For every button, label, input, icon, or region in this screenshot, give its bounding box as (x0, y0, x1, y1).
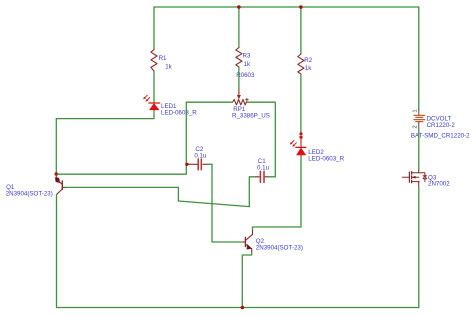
svg-text:1: 1 (413, 109, 419, 112)
svg-text:R3: R3 (243, 53, 251, 60)
wire Q3 source down (418, 187, 420, 307)
capacitor C1 (256, 171, 269, 182)
svg-text:R1: R1 (159, 55, 167, 62)
wire bottom rail (57, 307, 419, 309)
wire right vertical battery top (418, 7, 420, 110)
wire C1 right riser to RP1 (246, 102, 275, 177)
wire Q2 emitter down (242, 253, 251, 308)
svg-text:1k: 1k (165, 64, 172, 71)
wire R3 top drop (238, 7, 240, 48)
wire R2 top drop (300, 7, 302, 54)
wire R2 to LED2 (300, 74, 302, 132)
svg-text:1k: 1k (244, 61, 251, 68)
resistor R1 (151, 50, 157, 72)
LED LED2 (290, 137, 306, 158)
svg-text:CR1220-2: CR1220-2 (427, 122, 456, 129)
svg-text:R_3386P_US: R_3386P_US (232, 112, 270, 119)
node Q1 collector junction (55, 172, 59, 176)
svg-text:R2: R2 (304, 57, 312, 64)
wire R1 to LED1 (153, 71, 155, 102)
wire RP1 left to C2 riser (186, 101, 232, 103)
node bottom rail junction (241, 306, 245, 310)
svg-text:2N3904(SOT-23): 2N3904(SOT-23) (6, 190, 53, 197)
resistor R2 (298, 54, 304, 74)
node top rail R2 (299, 5, 303, 9)
svg-text:LED-0603_R: LED-0603_R (161, 110, 197, 117)
node C2 left junction (185, 163, 188, 166)
transistor Q3 (402, 170, 426, 187)
svg-text:2N3904(SOT-23): 2N3904(SOT-23) (256, 245, 303, 252)
transistor Q1 (55, 174, 65, 194)
resistor R3 (236, 48, 242, 68)
svg-text:2: 2 (413, 125, 419, 128)
wire top rail (154, 6, 419, 8)
wire LED1 bottom to left (56, 112, 154, 119)
svg-text:1k: 1k (305, 65, 312, 72)
svg-text:0.1u: 0.1u (194, 152, 207, 159)
svg-text:LED-0603_R: LED-0603_R (308, 155, 344, 162)
wire LED2 to Q2 collector (253, 158, 302, 231)
node top rail R3 (237, 5, 241, 9)
transistor Q2 (243, 231, 252, 253)
svg-text:0.1u: 0.1u (257, 165, 270, 172)
potentiometer RP1 (233, 89, 249, 105)
wire C1 left riser (249, 177, 256, 207)
capacitor C2 (187, 159, 208, 170)
wire diagonal Q1 base to C1 (178, 201, 249, 207)
wire battery to Q3 drain (418, 130, 420, 170)
wire left vertical to Q1 (55, 119, 57, 174)
wire C2 right down to Q2 base (208, 164, 244, 242)
node LED2 anode dots (299, 132, 302, 135)
wire R3 to RP1 wiper (238, 67, 240, 89)
battery DCVOLT (414, 110, 425, 131)
svg-text:2N7002: 2N7002 (428, 181, 450, 188)
wire R1 top drop (153, 7, 155, 50)
wire Q1 emitter down (56, 194, 58, 307)
svg-text:BAT-SMD_CR1220-2: BAT-SMD_CR1220-2 (411, 133, 470, 140)
wire Q1 junction to C2 (56, 103, 186, 174)
LED LED1 (143, 95, 160, 112)
wire Q1 base run (65, 187, 178, 201)
